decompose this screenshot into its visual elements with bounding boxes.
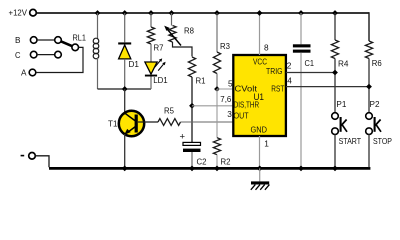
wire pin5 xyxy=(217,88,233,90)
svg-text:TRIG: TRIG xyxy=(266,66,283,76)
wire common to A xyxy=(36,47,83,72)
node RST R6 xyxy=(366,84,372,90)
op-amp U1 555 body xyxy=(233,55,286,136)
wire rail to D1 xyxy=(124,13,126,42)
node R7 top xyxy=(148,10,154,16)
wire node to R2 xyxy=(216,89,218,138)
wire rail to R4 xyxy=(334,13,336,40)
relay switch arm RL1 xyxy=(61,41,73,46)
wire base to R5 xyxy=(138,121,158,123)
svg-text:1: 1 xyxy=(264,139,269,149)
svg-text:P1: P1 xyxy=(336,99,346,109)
node D1 link xyxy=(122,86,128,92)
wire negative to bottom rail xyxy=(35,156,49,168)
wire ground bottom rail xyxy=(49,167,370,170)
wire top rail bend to R6 xyxy=(368,12,370,41)
potentiometer R8 xyxy=(169,26,176,43)
wire P1 to rail xyxy=(334,135,336,168)
wire B to contact xyxy=(37,39,55,41)
node R8 top xyxy=(169,10,175,16)
resistor R3 xyxy=(213,52,220,74)
node R2 rail xyxy=(214,166,220,172)
wire D1 to link xyxy=(124,59,126,89)
svg-text:RST: RST xyxy=(271,84,284,94)
node C1 rail xyxy=(298,166,304,172)
svg-text:R6: R6 xyxy=(372,58,382,68)
svg-text:B: B xyxy=(15,35,21,45)
svg-text:+12V: +12V xyxy=(9,8,28,18)
pushbutton P2 xyxy=(366,113,373,120)
node D1 top xyxy=(122,10,128,16)
svg-text:DIS,THR: DIS,THR xyxy=(234,100,260,110)
capacitor C2 xyxy=(183,142,201,145)
svg-text:8: 8 xyxy=(264,43,269,53)
resistor R5 xyxy=(158,119,181,126)
svg-text:T1: T1 xyxy=(108,118,118,128)
wire +12V top rail xyxy=(37,12,369,14)
wire R4 to P1 xyxy=(334,59,336,113)
svg-text:R8: R8 xyxy=(184,25,194,35)
relay contact pole xyxy=(55,37,62,44)
pin 1 wire xyxy=(259,136,261,167)
node emitter rail xyxy=(122,166,128,172)
svg-text:R7: R7 xyxy=(154,42,164,52)
svg-text:C1: C1 xyxy=(305,58,315,68)
wire R5 to OUT pin3 xyxy=(181,121,234,123)
node coil top xyxy=(95,10,101,16)
resistor R2 xyxy=(213,138,220,155)
node R4 top xyxy=(332,10,338,16)
node ground rail xyxy=(257,166,263,172)
svg-text:R4: R4 xyxy=(338,58,349,68)
svg-text:A: A xyxy=(21,68,27,78)
relay contact common xyxy=(72,44,79,51)
node pin8 xyxy=(257,10,263,16)
wire collector xyxy=(124,89,126,112)
svg-text:OUT: OUT xyxy=(234,111,249,121)
+12V terminal xyxy=(30,9,37,16)
svg-text:4: 4 xyxy=(287,76,292,86)
resistor R7 xyxy=(147,27,154,44)
svg-text:START: START xyxy=(339,136,362,146)
svg-text:5: 5 xyxy=(228,78,233,88)
svg-text:+: + xyxy=(180,132,186,143)
terminal A xyxy=(29,69,36,76)
svg-text:7,6: 7,6 xyxy=(220,94,231,104)
wire link coil-D1-LED xyxy=(98,88,152,90)
wire pins 7-6 xyxy=(192,105,233,107)
transistor T1 xyxy=(119,111,144,136)
pin 8 wire xyxy=(259,13,261,55)
node CVolt xyxy=(214,86,220,92)
svg-text:R5: R5 xyxy=(164,106,174,116)
negative terminal xyxy=(29,153,36,160)
svg-text:LD1: LD1 xyxy=(153,75,168,85)
svg-text:R1: R1 xyxy=(196,76,206,86)
wire rail to R3 xyxy=(216,13,218,52)
node C1 top xyxy=(298,10,304,16)
wire TRIG pin2 xyxy=(286,72,335,74)
svg-text:3: 3 xyxy=(227,109,232,119)
svg-text:C2: C2 xyxy=(197,156,207,166)
diode D1 xyxy=(118,42,131,44)
wire R8 to R1 xyxy=(173,42,193,57)
capacitor C1 xyxy=(293,44,311,47)
node timing xyxy=(189,103,195,109)
wire R7 to LED xyxy=(150,44,152,62)
wire RST pin4 xyxy=(286,86,369,88)
wire node to C2 xyxy=(191,106,193,143)
wire R6 to P2 xyxy=(368,59,370,113)
terminal B xyxy=(30,37,37,44)
resistor R6 xyxy=(365,41,372,59)
wire rail to C1 xyxy=(300,13,302,44)
wire P2 to rail xyxy=(368,135,370,168)
led LD1 xyxy=(145,62,157,74)
pushbutton P1 xyxy=(332,113,339,120)
svg-text:D1: D1 xyxy=(129,59,140,69)
wire rail to coil xyxy=(97,13,99,39)
resistor R1 xyxy=(188,57,195,77)
wire rail to R7 xyxy=(150,13,152,27)
wire emitter xyxy=(124,134,126,167)
wire R2 to rail xyxy=(216,155,218,168)
relay coil RL1 xyxy=(93,38,99,44)
wire R3 to node xyxy=(216,74,218,90)
svg-text:R3: R3 xyxy=(220,41,230,51)
ground xyxy=(251,181,269,184)
wire R1 to node xyxy=(191,77,193,106)
svg-text:P2: P2 xyxy=(370,99,380,109)
svg-text:C: C xyxy=(15,50,21,60)
node TRIG R4 xyxy=(332,70,338,76)
wire C to contact xyxy=(37,54,55,56)
svg-text:GND: GND xyxy=(251,125,268,135)
svg-text:RL1: RL1 xyxy=(73,32,87,42)
wire C1 to rail xyxy=(300,53,302,168)
wire C2 to rail xyxy=(191,152,193,167)
svg-text:STOP: STOP xyxy=(373,136,392,146)
node P1 rail xyxy=(332,166,338,172)
svg-text:R2: R2 xyxy=(221,156,231,166)
svg-text:VCC: VCC xyxy=(253,57,267,67)
wire rail to R8 xyxy=(171,13,173,26)
node C2 rail xyxy=(189,166,195,172)
wire to ground xyxy=(259,168,261,181)
relay contact NC xyxy=(55,51,62,58)
node R3 top xyxy=(214,10,220,16)
svg-text:2: 2 xyxy=(287,61,292,71)
resistor R4 xyxy=(331,40,338,59)
terminal C xyxy=(30,51,37,58)
wire coil to link xyxy=(97,58,99,89)
wire LED to link xyxy=(150,77,152,90)
